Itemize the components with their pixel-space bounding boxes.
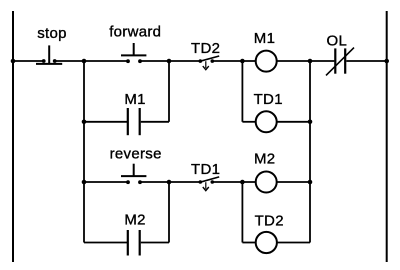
wire rung4: TD2 coil to right branch [278, 242, 311, 244]
wire rung2 left: to M1 seal contact [84, 121, 127, 123]
svg-text:OL: OL [327, 32, 348, 49]
junction dot rung2 left [82, 120, 87, 125]
wire rung3 left [84, 181, 127, 183]
wire rung1: OL to right rail [346, 60, 386, 62]
junction node E [167, 180, 172, 185]
wire vertical branch node D down [309, 61, 311, 243]
junction dot rung2 right [308, 120, 313, 125]
wire rung4: M2 seal to branch [141, 242, 169, 244]
svg-text:M1: M1 [254, 30, 275, 47]
junction node B [167, 59, 172, 64]
wire vertical branch node B to M1 seal [168, 61, 170, 122]
svg-text:TD2: TD2 [191, 40, 220, 57]
coil TD1 [256, 111, 277, 132]
pushbutton stop (NC) [36, 45, 62, 64]
wire rung2 right: branch to TD1 coil [242, 121, 255, 123]
coil M2 [256, 172, 277, 193]
junction dot on left rail [11, 59, 16, 64]
wire vertical branch at node A down [83, 61, 85, 243]
contact M1 seal-in (NO) [128, 108, 140, 135]
timed contact TD2 (NC) [199, 56, 220, 70]
wire rung4 left: to M2 seal contact [84, 242, 127, 244]
wire vertical branch M2 rung to TD2 coil [241, 182, 243, 243]
wire rung3: reverse to TD1 contact [140, 181, 200, 183]
junction node D [308, 59, 313, 64]
svg-text:TD1: TD1 [191, 161, 220, 178]
timed contact TD1 (NC) [199, 177, 220, 191]
svg-text:TD1: TD1 [254, 91, 283, 108]
svg-text:reverse: reverse [110, 145, 162, 162]
pushbutton reverse (NO) [121, 164, 146, 184]
wire rung1: coil M1 to OL contact [277, 60, 334, 62]
junction node A (seal branch) [82, 59, 87, 64]
junction dot on right rail [384, 59, 389, 64]
overload contact OL (NC) [326, 48, 354, 76]
junction node F [240, 180, 245, 185]
svg-text:stop: stop [37, 25, 67, 42]
wire rung2: M1 seal to branch [141, 121, 169, 123]
svg-text:M2: M2 [124, 211, 145, 228]
wire rung1: forward to TD2 contact [140, 60, 200, 62]
svg-text:M2: M2 [254, 151, 275, 168]
wire rung3: coil M2 to right branch [277, 181, 310, 183]
junction dot rung3 left [82, 180, 87, 185]
wire rung3: TD1 contact to coil M2 [212, 181, 255, 183]
svg-text:M1: M1 [124, 91, 145, 108]
wire rung4 right: branch to TD2 coil [242, 242, 255, 244]
right power rail L2 [386, 11, 388, 262]
left power rail L1 [12, 11, 14, 262]
svg-text:forward: forward [109, 23, 161, 40]
pushbutton forward (NO) [121, 43, 146, 63]
wire rung1: stop to forward [55, 60, 127, 62]
svg-text:TD2: TD2 [255, 213, 284, 230]
junction dot rung3 right [308, 180, 313, 185]
contact M2 seal-in (NO) [128, 230, 140, 256]
wire rung1: left rail to stop contact [13, 60, 43, 62]
coil M1 [256, 51, 277, 72]
junction node C [240, 59, 245, 64]
wire vertical branch node C to TD1 coil [241, 61, 243, 122]
wire rung2: TD1 coil to right branch [277, 121, 310, 123]
coil TD2 [256, 232, 277, 253]
wire rung1: TD2 contact to coil M1 [212, 60, 255, 62]
wire vertical branch reverse node to M2 seal [168, 182, 170, 243]
